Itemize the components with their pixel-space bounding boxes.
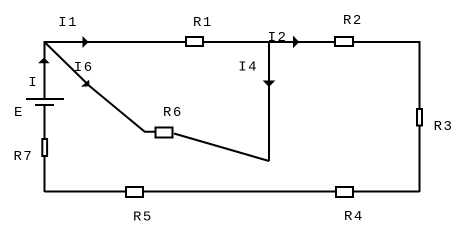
label E (battery): [14, 105, 24, 121]
resistor R7: [42, 139, 47, 156]
svg-text:I: I: [28, 75, 38, 91]
svg-text:I4: I4: [238, 60, 258, 76]
label R6: [163, 105, 183, 121]
label R2: [343, 13, 363, 29]
wire diagonal branch (node A through R6 toward node B): [45, 42, 156, 132]
label I2: [268, 30, 288, 46]
label R3: [434, 119, 454, 135]
svg-text:R5: R5: [133, 210, 153, 226]
resistor R3: [417, 109, 422, 126]
svg-text:E: E: [14, 105, 24, 121]
svg-text:R2: R2: [343, 13, 363, 29]
svg-text:I6: I6: [74, 60, 94, 76]
wire top: node A to node I2 to top-right corner: [45, 41, 420, 43]
svg-text:I2: I2: [268, 30, 288, 46]
label R1: [193, 15, 213, 31]
svg-text:R7: R7: [14, 149, 34, 165]
battery E plate long (+): [26, 98, 64, 100]
current arrow I1 (right): [83, 36, 89, 48]
label R7: [14, 149, 34, 165]
wire left upper (node A down to battery +): [44, 41, 46, 99]
resistor R5: [126, 187, 143, 197]
wire middle vertical (node I2 down to node B): [268, 42, 270, 161]
svg-text:R1: R1: [193, 15, 213, 31]
label I1: [58, 15, 78, 31]
resistor R6: [156, 128, 173, 138]
current arrow I6 (down-right along diagonal): [81, 80, 90, 87]
resistor R4: [336, 187, 353, 197]
resistor R2: [335, 37, 353, 46]
current arrow I2 (right): [293, 36, 299, 49]
current arrow I (up): [38, 58, 50, 64]
battery E plate short (-): [35, 104, 54, 106]
label R5: [133, 210, 153, 226]
wire diagonal after R6 to node B: [174, 134, 269, 162]
svg-text:R3: R3: [434, 119, 454, 135]
svg-text:I1: I1: [58, 15, 78, 31]
wire left lower (battery - down to bottom-left corner): [44, 105, 46, 192]
svg-text:R6: R6: [163, 105, 183, 121]
current arrow I4 (down): [263, 81, 276, 88]
wire bottom: [45, 191, 420, 193]
label I4: [238, 60, 258, 76]
label R4: [344, 209, 364, 225]
label I (battery current): [28, 75, 38, 91]
svg-text:R4: R4: [344, 209, 364, 225]
resistor R1: [186, 37, 203, 46]
label I6: [74, 60, 94, 76]
wire right side: [419, 41, 421, 192]
